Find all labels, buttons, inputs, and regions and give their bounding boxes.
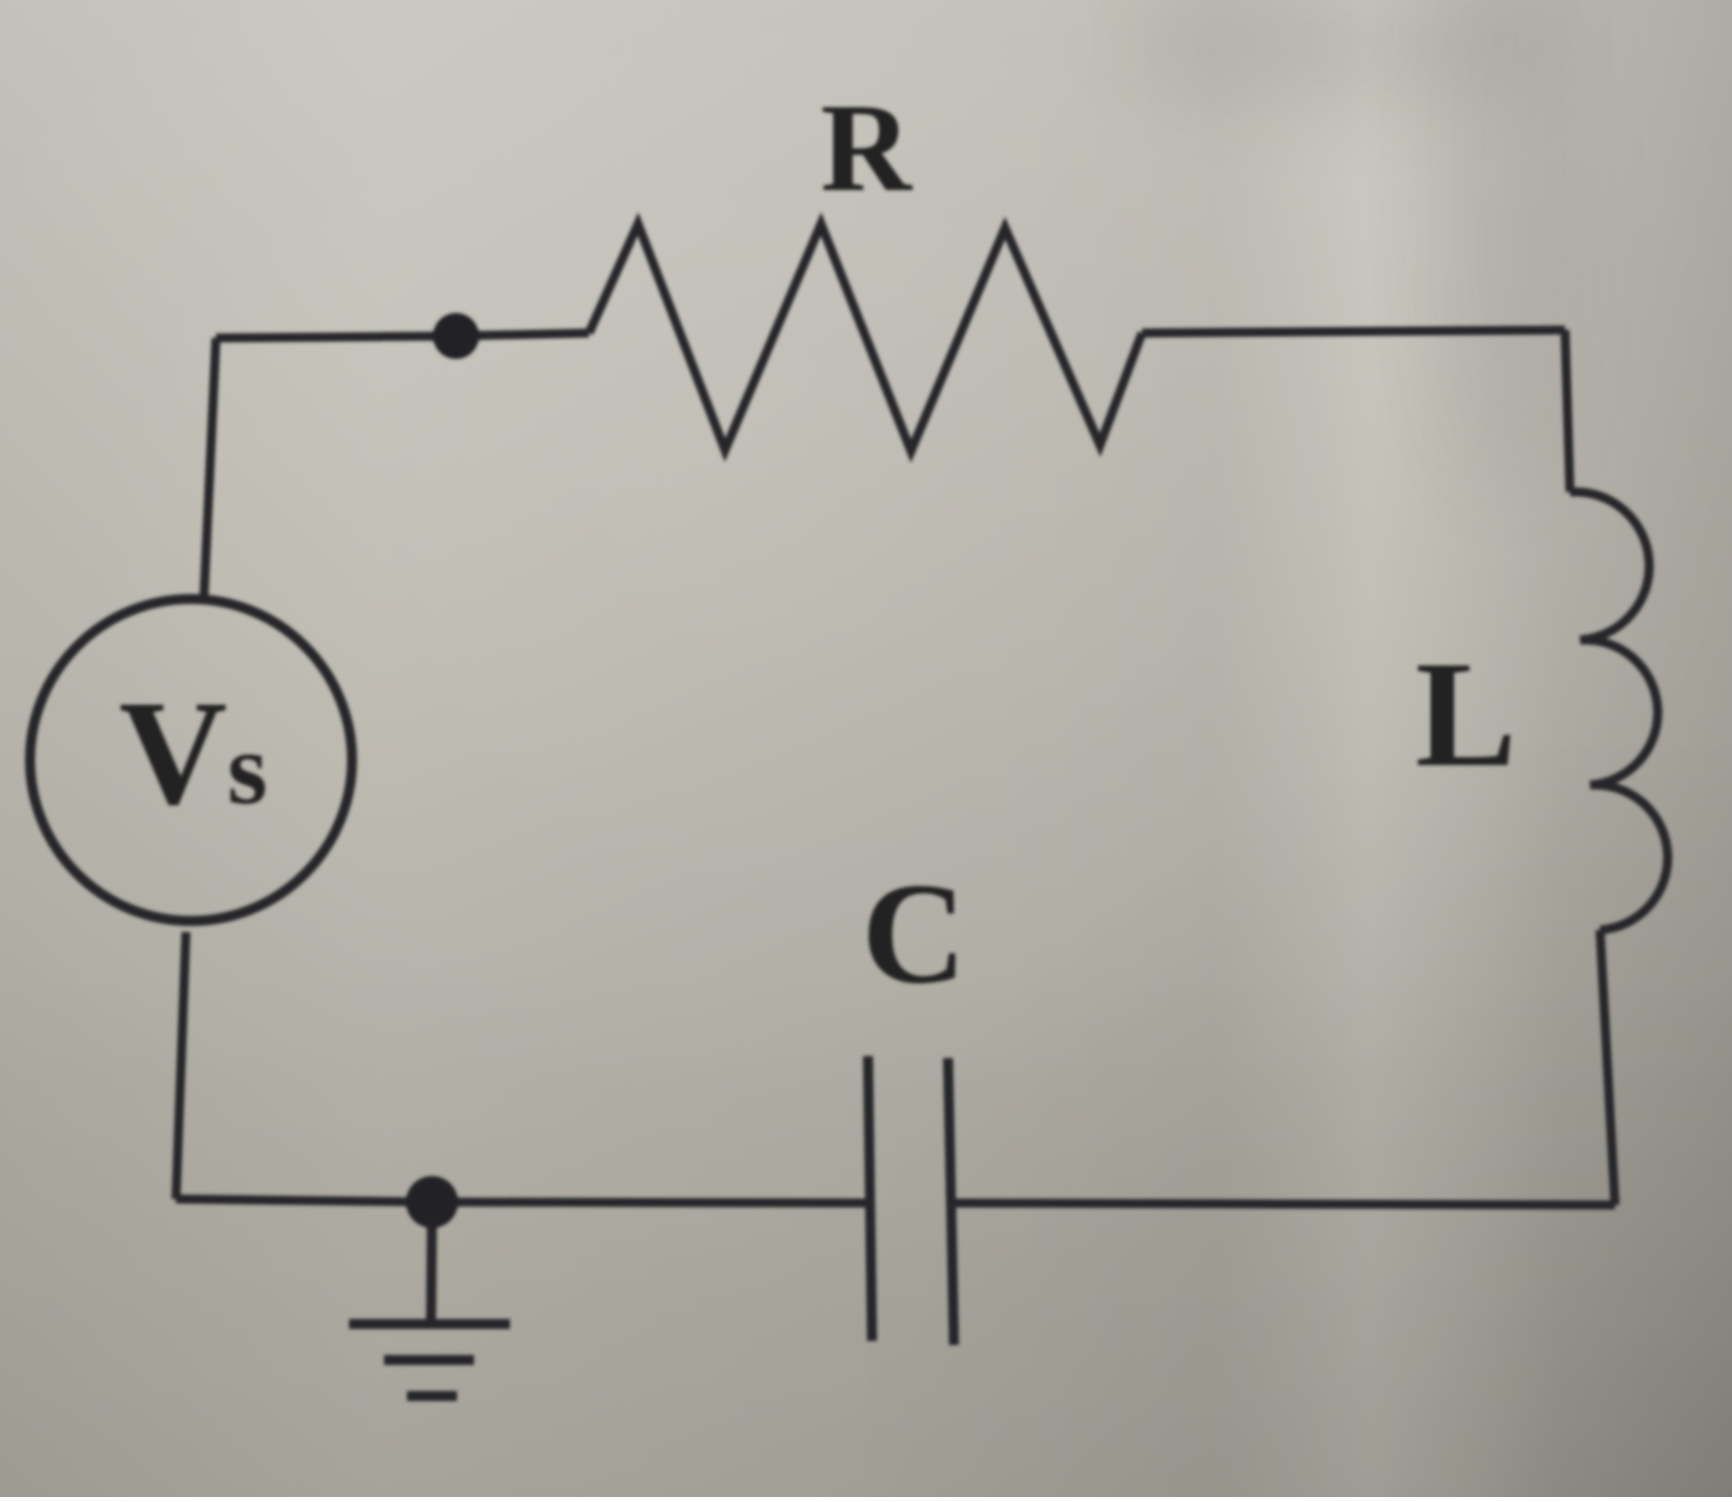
voltage source Vs [30, 599, 352, 921]
wire right vertical lower [1600, 930, 1615, 1205]
svg-text:R: R [821, 79, 914, 218]
node B (bottom junction dot) [406, 1176, 458, 1228]
inductor L [1570, 492, 1668, 930]
wire bottom rail right (corner to capacitor) [951, 1203, 1615, 1205]
wire top-left vertical (Vs top to top rail corner) [204, 338, 216, 596]
wire top rail right (resistor to top-right corner) [1142, 330, 1565, 333]
wire bottom rail far left (node B to corner) [176, 1199, 432, 1202]
wire top rail (node A to resistor) [456, 333, 589, 336]
wire right vertical upper [1565, 330, 1570, 492]
wire left vertical lower (corner to Vs bottom) [176, 932, 186, 1199]
capacitor C [868, 1056, 954, 1345]
svg-text:C: C [862, 854, 967, 1014]
wire top rail left (corner to node A) [216, 336, 456, 338]
svg-text:L: L [1415, 630, 1516, 798]
resistor R [589, 224, 1142, 451]
ground [349, 1208, 510, 1396]
wire bottom rail left (capacitor to node B) [432, 1202, 868, 1203]
node A (top junction dot) [433, 313, 479, 359]
